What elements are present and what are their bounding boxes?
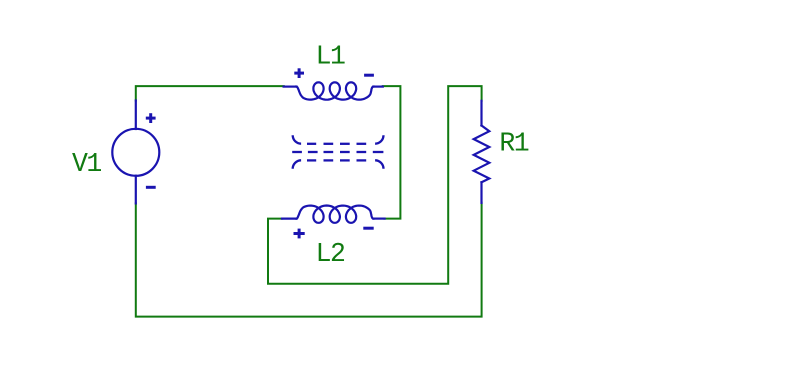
svg-text:L1: L1 xyxy=(316,42,345,72)
svg-text:R1: R1 xyxy=(499,129,528,159)
svg-text:V1: V1 xyxy=(72,149,101,179)
svg-text:L2: L2 xyxy=(316,239,345,269)
